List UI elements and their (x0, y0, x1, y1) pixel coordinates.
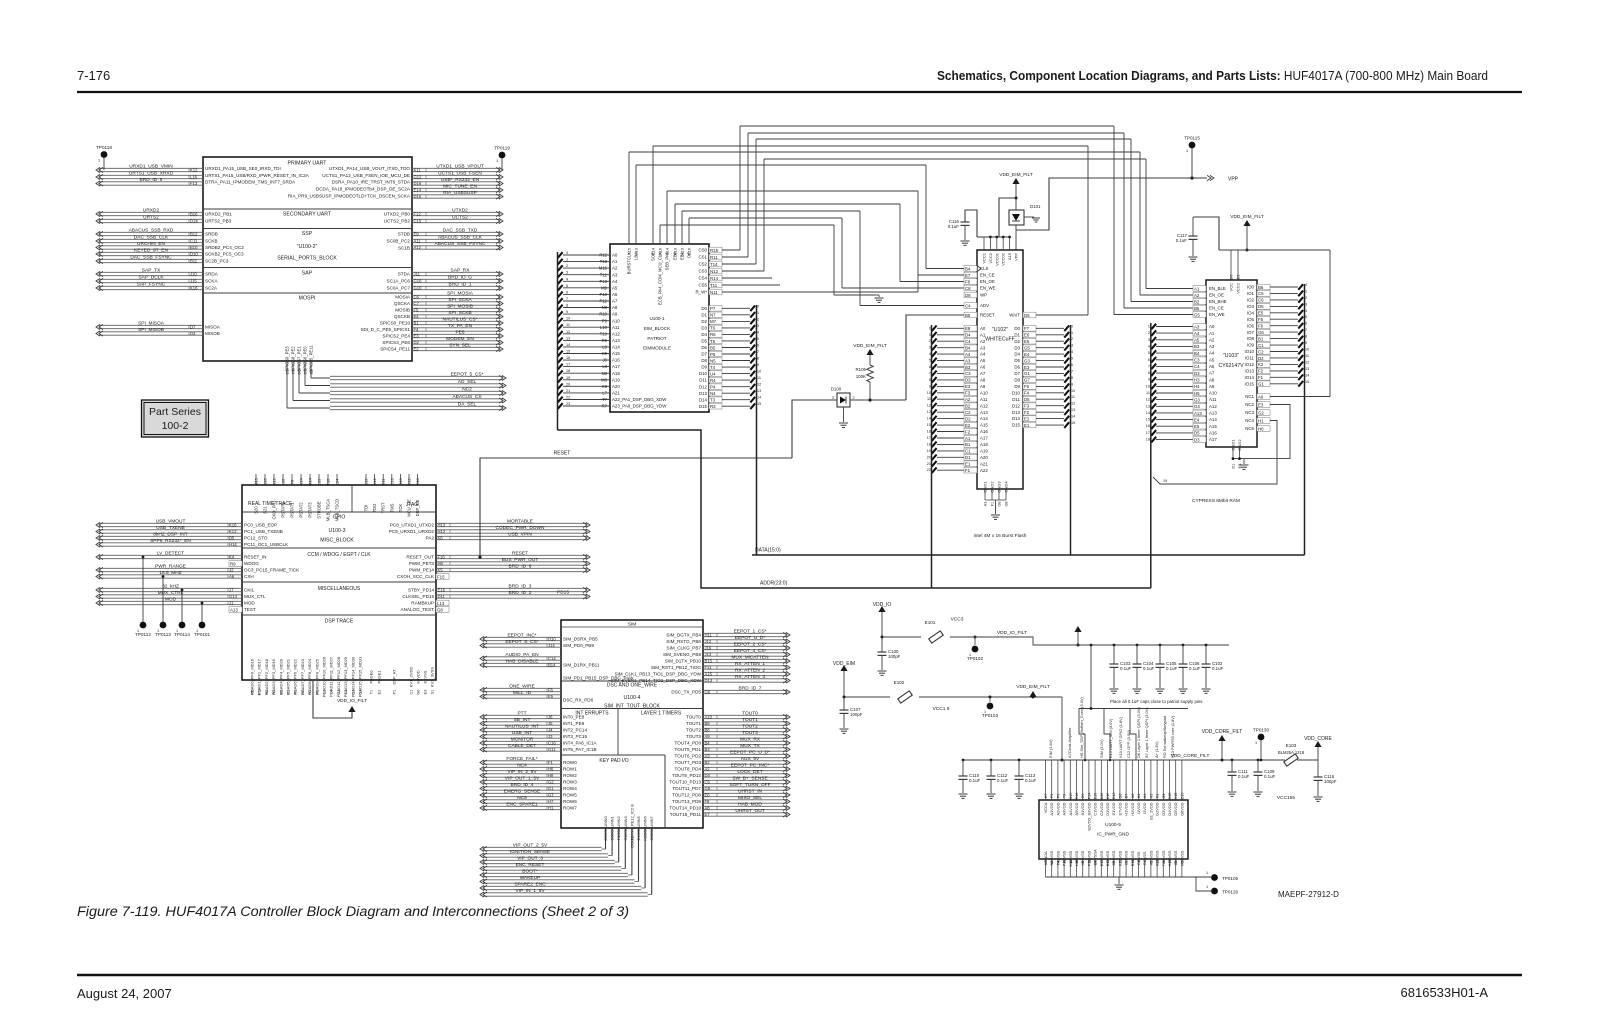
svg-text:B7: B7 (1125, 794, 1129, 799)
svg-text:B2: B2 (279, 690, 283, 695)
svg-text:3: 3 (1148, 338, 1150, 342)
svg-text:K8: K8 (602, 384, 608, 389)
U100-1 left address pins with bus taps (558, 251, 668, 430)
svg-text:D7: D7 (1014, 371, 1020, 376)
svg-text:A7: A7 (1209, 371, 1215, 376)
svg-text:0.1uF: 0.1uF (1166, 666, 1178, 671)
svg-text:D5: D5 (1024, 397, 1030, 402)
svg-text:1: 1 (929, 333, 931, 337)
svg-text:D5: D5 (604, 836, 608, 841)
svg-text:B5: B5 (710, 345, 716, 350)
svg-text:VDD_IO: VDD_IO (873, 602, 892, 608)
svg-text:N12: N12 (710, 269, 719, 274)
svg-text:AD_SEL: AD_SEL (458, 379, 477, 385)
U100-3 bottom VDD_IO_FILT supply (313, 680, 367, 718)
svg-text:E7VDD: E7VDD (1117, 802, 1122, 815)
svg-text:12: 12 (566, 330, 570, 334)
svg-text:BRD_ID_6: BRD_ID_6 (509, 564, 532, 570)
svg-text:COLUMN2: COLUMN2 (616, 815, 621, 835)
svg-text:CS1: CS1 (698, 255, 707, 260)
svg-text:A18: A18 (980, 442, 988, 447)
svg-text:CS4: CS4 (698, 276, 707, 281)
svg-text:August 24, 2007: August 24, 2007 (77, 986, 172, 1001)
svg-text:E1: E1 (1236, 274, 1241, 280)
svg-text:A1: A1 (1143, 794, 1147, 799)
svg-text:BRD_ID_4: BRD_ID_4 (511, 782, 534, 788)
svg-text:A14: A14 (372, 478, 377, 486)
svg-text:A1: A1 (980, 332, 986, 337)
svg-text:A8: A8 (980, 378, 986, 383)
svg-text:SPICS9_PE3: SPICS9_PE3 (285, 346, 290, 372)
svg-text:TOUT10_PD13: TOUT10_PD13 (669, 780, 701, 785)
svg-text:URXD1_USB_VMIN: URXD1_USB_VMIN (129, 164, 173, 170)
svg-text:TOUT15_PD11: TOUT15_PD11 (670, 812, 702, 817)
svg-text:INT2_PC14: INT2_PC14 (563, 728, 587, 733)
svg-text:STDB: STDB (398, 232, 410, 237)
svg-text:NC2: NC2 (462, 387, 472, 393)
svg-text:A3: A3 (980, 345, 986, 350)
svg-text:A11: A11 (612, 325, 620, 330)
U102 right WAIT and data pins (1009, 312, 1075, 555)
svg-text:G2: G2 (359, 689, 363, 694)
svg-text:IO14: IO14 (1244, 375, 1254, 380)
svg-text:E1: E1 (637, 836, 641, 841)
svg-text:D4: D4 (705, 773, 711, 778)
svg-text:H13: H13 (438, 523, 446, 528)
svg-text:BRD_ID_2: BRD_ID_2 (509, 590, 532, 596)
svg-text:R15: R15 (710, 248, 719, 253)
svg-text:3: 3 (566, 271, 568, 275)
svg-text:K4: K4 (229, 555, 235, 560)
svg-text:USB*_RS232_EN: USB*_RS232_EN (441, 177, 480, 183)
svg-text:E3: E3 (965, 384, 971, 389)
svg-text:SC2A: SC2A (205, 286, 218, 291)
U100-2 bottom SPICS pins and EEPOT select nets (285, 345, 507, 411)
svg-text:N7: N7 (710, 313, 716, 318)
svg-text:A4: A4 (1137, 794, 1141, 799)
block U100-4 SIM interrupts timers keypad (561, 620, 703, 828)
svg-text:E6: E6 (705, 793, 711, 798)
svg-text:COLUMN5: COLUMN5 (636, 815, 641, 835)
svg-text:RAMBKUP: RAMBKUP (411, 601, 434, 606)
svg-text:G4: G4 (1194, 404, 1200, 409)
svg-text:ROW6: ROW6 (563, 799, 577, 804)
svg-text:DSP_AT: DSP_AT (392, 669, 397, 685)
svg-text:K13: K13 (1156, 860, 1160, 867)
svg-text:A1: A1 (612, 259, 618, 264)
U100-1 right chip select pins (696, 126, 918, 295)
svg-text:P12: P12 (600, 299, 608, 304)
svg-text:G11: G11 (548, 747, 556, 752)
svg-text:TEST: TEST (244, 607, 256, 612)
svg-text:D101: D101 (1030, 204, 1041, 209)
svg-text:F4: F4 (414, 327, 420, 332)
svg-text:VDD_CORE_FILT: VDD_CORE_FILT (1202, 729, 1242, 735)
svg-text:19: 19 (927, 449, 931, 453)
svg-text:1: 1 (984, 710, 986, 714)
U100-4 inner pin names (563, 633, 702, 818)
svg-text:G7: G7 (1024, 378, 1030, 383)
footer rule (77, 974, 1522, 977)
svg-text:H5: H5 (1194, 391, 1200, 396)
svg-text:DSP_DE: DSP_DE (415, 499, 420, 516)
U100-1 right data pins with bus taps (699, 304, 761, 555)
decoupling caps C103 C104 C105 C106 C102 (1110, 644, 1224, 694)
svg-text:5: 5 (1148, 351, 1150, 355)
svg-text:0: 0 (929, 326, 931, 330)
svg-text:PAGE0: PAGE0 (369, 670, 374, 684)
svg-text:12: 12 (757, 383, 761, 387)
svg-text:B1: B1 (1258, 336, 1264, 341)
svg-text:NC4: NC4 (517, 763, 527, 769)
svg-text:UTXD1_PA14_USB_VOUT_ITXD_TDO: UTXD1_PA14_USB_VOUT_ITXD_TDO (329, 166, 411, 171)
svg-text:11: 11 (757, 376, 761, 380)
svg-text:G9: G9 (1081, 794, 1085, 799)
svg-text:J15: J15 (190, 279, 197, 284)
svg-text:8: 8 (1148, 371, 1150, 375)
svg-text:A7: A7 (1044, 794, 1048, 799)
svg-text:ECB_PA4_COM_MCU_CLK: ECB_PA4_COM_MCU_CLK (658, 252, 663, 305)
svg-text:SYN_SEL: SYN_SEL (449, 343, 471, 349)
svg-text:A1: A1 (965, 436, 971, 441)
svg-text:P6: P6 (1056, 794, 1060, 799)
svg-text:0.1uF: 0.1uF (1212, 666, 1224, 671)
svg-text:EEPOT_5_CS*: EEPOT_5_CS* (451, 372, 484, 378)
svg-text:G12: G12 (414, 175, 423, 180)
svg-text:TOUT9_PD12: TOUT9_PD12 (672, 773, 701, 778)
svg-text:8: 8 (757, 357, 759, 361)
svg-text:E5: E5 (1024, 339, 1030, 344)
svg-text:D7: D7 (190, 325, 196, 330)
svg-text:R12: R12 (599, 253, 607, 258)
svg-text:A11: A11 (1209, 397, 1217, 402)
svg-text:VDD_IO_FILT: VDD_IO_FILT (337, 698, 367, 704)
svg-text:1: 1 (1148, 325, 1150, 329)
svg-text:WDOG: WDOG (244, 561, 259, 566)
svg-text:D13: D13 (705, 678, 713, 683)
svg-text:C8: C8 (965, 286, 971, 291)
test point TP0119 (494, 146, 510, 171)
svg-text:13: 13 (1305, 367, 1309, 371)
U100-4 left external nets (480, 633, 561, 811)
svg-text:SIM_DSRX_PB5: SIM_DSRX_PB5 (563, 637, 598, 642)
svg-text:N10: N10 (1069, 793, 1073, 800)
svg-text:R16: R16 (1075, 793, 1079, 800)
svg-text:IO5: IO5 (1247, 317, 1255, 322)
svg-text:E16: E16 (438, 588, 446, 593)
U102 left address pins with taps (927, 325, 989, 588)
svg-text:E1: E1 (965, 462, 971, 467)
svg-text:D1VDD: D1VDD (1105, 802, 1110, 815)
diode D101 with VDD_EIM_FILT (999, 172, 1041, 250)
svg-text:IO12: IO12 (1244, 362, 1254, 367)
svg-text:B11: B11 (190, 259, 198, 264)
svg-text:A3: A3 (705, 754, 711, 759)
U102 ground pins (974, 481, 1027, 539)
svg-text:A6: A6 (1131, 794, 1135, 799)
svg-text:N1: N1 (294, 690, 298, 695)
svg-text:E2: E2 (1024, 416, 1030, 421)
svg-text:B5: B5 (1194, 306, 1200, 311)
svg-text:A6: A6 (1258, 394, 1264, 399)
svg-text:E14: E14 (414, 188, 422, 193)
svg-text:G4VDD: G4VDD (1167, 802, 1172, 816)
svg-text:SW_B+_SENSE: SW_B+_SENSE (732, 776, 767, 782)
svg-text:F15: F15 (437, 574, 445, 579)
svg-text:UHRST_IN: UHRST_IN (738, 789, 763, 795)
svg-text:VDD_EIM_FILT: VDD_EIM_FILT (999, 172, 1033, 178)
bus ADDR(23:0) (558, 430, 1151, 588)
svg-text:F6: F6 (1258, 324, 1264, 329)
svg-text:BRD_ID_G: BRD_ID_G (448, 275, 472, 281)
svg-text:UCTS2_PB2: UCTS2_PB2 (384, 219, 411, 224)
svg-text:A14: A14 (1209, 417, 1217, 422)
svg-text:B2: B2 (965, 404, 971, 409)
svg-text:G3: G3 (650, 835, 654, 840)
svg-text:GND4: GND4 (1004, 481, 1009, 493)
svg-text:VCC1 8: VCC1 8 (933, 706, 950, 712)
svg-text:A6: A6 (1209, 364, 1215, 369)
svg-text:M8: M8 (601, 377, 607, 382)
svg-text:H1: H1 (548, 806, 554, 811)
svg-text:P10: P10 (600, 292, 608, 297)
svg-text:TDO: TDO (372, 503, 377, 513)
svg-text:UTXD1_USB_VPOUT: UTXD1_USB_VPOUT (436, 164, 484, 170)
wire VDD_EIM to power block (1061, 697, 1064, 762)
svg-text:CXH: CXH (244, 574, 254, 579)
svg-text:LV_DETECT: LV_DETECT (157, 551, 184, 557)
svg-text:ROW5: ROW5 (563, 793, 577, 798)
svg-text:D13: D13 (1012, 410, 1021, 415)
svg-text:F11: F11 (705, 665, 713, 670)
svg-text:ROW4: ROW4 (563, 786, 577, 791)
svg-text:HAB_MOD: HAB_MOD (738, 802, 762, 808)
svg-text:C11: C11 (190, 239, 198, 244)
svg-text:SIM_INT_TOUT_BLOCK: SIM_INT_TOUT_BLOCK (604, 704, 660, 710)
svg-text:CKO_PA3: CKO_PA3 (272, 500, 277, 520)
svg-text:SDI_D_C_PE5_SPICS1: SDI_D_C_PE5_SPICS1 (360, 327, 410, 332)
svg-text:A14: A14 (612, 345, 620, 350)
svg-text:MISCELLANEOUS: MISCELLANEOUS (318, 586, 361, 592)
svg-text:E15: E15 (1094, 793, 1098, 800)
svg-text:C4: C4 (1137, 861, 1141, 866)
svg-text:P11: P11 (1063, 860, 1067, 866)
svg-text:C1: C1 (965, 449, 971, 454)
svg-text:E2: E2 (414, 347, 420, 352)
svg-text:9: 9 (1148, 378, 1150, 382)
svg-text:VDD_EIM: VDD_EIM (833, 661, 855, 667)
test point TP0102 (967, 636, 984, 662)
svg-text:B4: B4 (705, 741, 711, 746)
svg-text:6: 6 (757, 344, 759, 348)
svg-text:R4: R4 (710, 378, 716, 383)
svg-text:MLB_TSCD: MLB_TSCD (335, 499, 340, 521)
supply sub-rail above U100-5 (1079, 644, 1188, 762)
svg-text:B4: B4 (1194, 351, 1200, 356)
svg-text:N9: N9 (602, 305, 608, 310)
svg-text:R10: R10 (599, 312, 607, 317)
svg-text:0.1uF: 0.1uF (1176, 238, 1188, 243)
svg-text:SPICS4_PE11: SPICS4_PE11 (380, 347, 410, 352)
svg-text:N12: N12 (272, 478, 277, 486)
U100-1 top pins to memory control bus (627, 247, 692, 305)
svg-text:MOD: MOD (244, 601, 255, 606)
svg-text:VIP_IN_2_5V: VIP_IN_2_5V (507, 769, 537, 775)
svg-text:A5: A5 (1209, 357, 1215, 362)
U100-2 inner pin names (205, 166, 411, 352)
svg-text:E4: E4 (414, 314, 420, 319)
svg-text:23: 23 (566, 402, 570, 406)
svg-text:A0: A0 (980, 326, 986, 331)
svg-text:C8: C8 (1174, 861, 1178, 866)
svg-text:ADV: ADV (980, 303, 989, 308)
svg-text:P5: P5 (710, 352, 716, 357)
svg-text:WAIT: WAIT (1009, 313, 1020, 318)
svg-text:K2: K2 (1258, 362, 1264, 367)
svg-text:D15: D15 (699, 404, 708, 409)
svg-text:T14: T14 (710, 262, 718, 267)
svg-text:J3: J3 (548, 734, 553, 739)
svg-text:3: 3 (757, 324, 759, 328)
svg-text:5: 5 (566, 284, 568, 288)
svg-text:0.1uF: 0.1uF (997, 778, 1009, 783)
svg-text:8: 8 (1071, 376, 1073, 380)
svg-text:E11: E11 (381, 478, 386, 486)
svg-text:E101: E101 (925, 620, 936, 625)
svg-text:SRDB: SRDB (205, 232, 218, 237)
svg-text:S1: S1 (431, 690, 435, 695)
svg-text:COLUMN1: COLUMN1 (610, 815, 615, 835)
svg-text:J9: J9 (603, 358, 608, 363)
test point TP0118 (96, 145, 112, 170)
svg-text:J14: J14 (548, 643, 555, 648)
svg-text:A15: A15 (1209, 424, 1217, 429)
svg-text:7: 7 (566, 297, 568, 301)
svg-text:COLUMN7: COLUMN7 (649, 815, 654, 835)
svg-text:DAC_SSB_TXD: DAC_SSB_TXD (443, 228, 478, 234)
svg-text:A12: A12 (612, 331, 620, 336)
svg-text:C12: C12 (1112, 793, 1116, 800)
svg-text:C13: C13 (389, 478, 394, 486)
svg-text:7: 7 (757, 350, 759, 354)
svg-text:J1: J1 (229, 601, 234, 606)
svg-text:A13: A13 (1209, 411, 1217, 416)
svg-text:C2: C2 (1258, 349, 1264, 354)
svg-text:7: 7 (1071, 369, 1073, 373)
svg-text:B7 Layer 1 timer QSPI (3.0V): B7 Layer 1 timer QSPI (3.0V) (1144, 707, 1149, 758)
svg-text:TP0126: TP0126 (1222, 890, 1239, 895)
svg-text:G4: G4 (624, 835, 628, 840)
svg-text:C16: C16 (548, 741, 556, 746)
svg-text:0: 0 (757, 304, 759, 308)
svg-text:G8: G8 (1005, 501, 1009, 506)
svg-text:EMERG_SENSE: EMERG_SENSE (504, 789, 541, 795)
svg-text:DSC AND ONE_WIRE: DSC AND ONE_WIRE (607, 683, 658, 689)
svg-text:IO7: IO7 (1247, 330, 1255, 335)
svg-text:VCC2: VCC2 (1236, 282, 1241, 293)
svg-text:D12: D12 (699, 384, 708, 389)
svg-text:H9: H9 (1081, 861, 1085, 866)
svg-text:10: 10 (1146, 384, 1150, 388)
svg-text:EB1: EB1 (680, 251, 685, 260)
svg-text:NC4: NC4 (1245, 418, 1254, 423)
svg-text:VPP: VPP (1014, 253, 1019, 261)
svg-text:T10: T10 (600, 331, 608, 336)
svg-text:11: 11 (1146, 391, 1150, 395)
svg-text:PGAD5_PF5_MD21: PGAD5_PF5_MD21 (286, 658, 291, 695)
svg-text:MCU_DE: MCU_DE (407, 499, 412, 517)
svg-text:M3: M3 (301, 689, 305, 694)
svg-text:D2: D2 (1014, 339, 1020, 344)
svg-text:VIP_OUT_2_5V: VIP_OUT_2_5V (513, 843, 548, 849)
svg-text:SIM_DGTX_PB4: SIM_DGTX_PB4 (666, 633, 701, 638)
svg-text:BUS_PWR_OUT: BUS_PWR_OUT (502, 557, 539, 563)
svg-text:15: 15 (1071, 421, 1075, 425)
svg-text:RX_ATTEN_2: RX_ATTEN_2 (735, 668, 765, 674)
svg-text:SIM: SIM (628, 622, 637, 628)
svg-text:PD15: PD15 (557, 590, 569, 596)
svg-text:21: 21 (566, 389, 570, 393)
U100-3 inner pin names (244, 523, 435, 613)
svg-text:D10: D10 (1012, 390, 1021, 395)
svg-text:H1VDD: H1VDD (1124, 802, 1129, 815)
svg-text:URXD2_PB1: URXD2_PB1 (205, 212, 232, 217)
svg-text:I1VDD: I1VDD (1136, 802, 1141, 814)
svg-text:F7: F7 (1024, 326, 1030, 331)
svg-text:MISC_BLOCK: MISC_BLOCK (320, 538, 354, 544)
svg-text:15: 15 (927, 423, 931, 427)
svg-text:F1: F1 (548, 760, 554, 765)
svg-text:D8: D8 (701, 358, 707, 363)
svg-text:MUX_TX: MUX_TX (740, 743, 760, 749)
svg-text:RX_ATTEN_3: RX_ATTEN_3 (735, 674, 765, 680)
svg-text:0.1uF: 0.1uF (1264, 774, 1276, 779)
svg-text:A5: A5 (980, 358, 986, 363)
svg-text:1: 1 (566, 258, 568, 262)
svg-text:GND1: GND1 (983, 481, 988, 493)
svg-text:H8: H8 (438, 561, 444, 566)
svg-text:M6: M6 (251, 689, 255, 694)
svg-text:PC1_USB_TXENB: PC1_USB_TXENB (244, 529, 283, 534)
svg-text:H4: H4 (1194, 384, 1200, 389)
svg-text:B1VDD: B1VDD (1080, 802, 1085, 815)
svg-text:E1: E1 (287, 690, 291, 695)
svg-text:L3: L3 (344, 690, 348, 694)
svg-text:RX_ATTEN_1: RX_ATTEN_1 (735, 661, 765, 667)
svg-text:20: 20 (927, 455, 931, 459)
svg-text:A22_PA1_DSP_DBG_XDW: A22_PA1_DSP_DBG_XDW (612, 397, 667, 402)
svg-text:2: 2 (853, 396, 855, 400)
svg-text:E3: E3 (1258, 402, 1264, 407)
svg-text:G5: G5 (1024, 346, 1030, 351)
svg-text:2: 2 (566, 264, 568, 268)
svg-text:F16: F16 (438, 555, 446, 560)
svg-text:SECONDARY UART: SECONDARY UART (283, 212, 332, 218)
svg-text:PATRIOT: PATRIOT (647, 336, 666, 341)
svg-text:0.1uF: 0.1uF (1238, 774, 1250, 779)
svg-text:A22: A22 (980, 468, 988, 473)
svg-text:IO6: IO6 (1247, 323, 1255, 328)
svg-text:E7: E7 (965, 273, 971, 278)
svg-text:ROW0: ROW0 (563, 760, 577, 765)
svg-text:PGAD2_PF2_MD18: PGAD2_PF2_MD18 (264, 658, 269, 695)
svg-text:R7: R7 (602, 404, 608, 409)
svg-text:7: 7 (1148, 364, 1150, 368)
svg-text:A3: A3 (612, 272, 618, 277)
svg-text:IO8: IO8 (1247, 336, 1255, 341)
svg-text:D6: D6 (1014, 365, 1020, 370)
svg-text:RESET: RESET (980, 313, 995, 318)
